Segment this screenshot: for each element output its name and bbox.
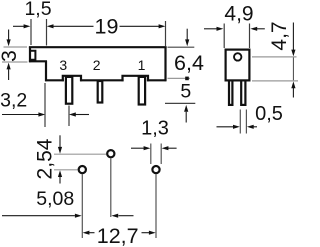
svg-text:5: 5 <box>180 81 191 103</box>
svg-text:3: 3 <box>0 50 21 62</box>
svg-text:1,5: 1,5 <box>24 0 51 20</box>
svg-text:6,4: 6,4 <box>174 51 204 75</box>
svg-text:3,2: 3,2 <box>0 89 27 111</box>
svg-text:19: 19 <box>95 15 119 39</box>
svg-text:3: 3 <box>59 57 67 73</box>
svg-text:4,9: 4,9 <box>224 3 253 26</box>
svg-text:2: 2 <box>93 57 101 73</box>
svg-text:0,5: 0,5 <box>255 103 283 125</box>
svg-text:1: 1 <box>138 57 146 73</box>
svg-text:4,7: 4,7 <box>268 21 291 50</box>
svg-text:1,3: 1,3 <box>141 118 169 140</box>
svg-text:12,7: 12,7 <box>97 224 139 247</box>
svg-text:2,54: 2,54 <box>34 138 57 179</box>
svg-text:5,08: 5,08 <box>36 188 74 210</box>
